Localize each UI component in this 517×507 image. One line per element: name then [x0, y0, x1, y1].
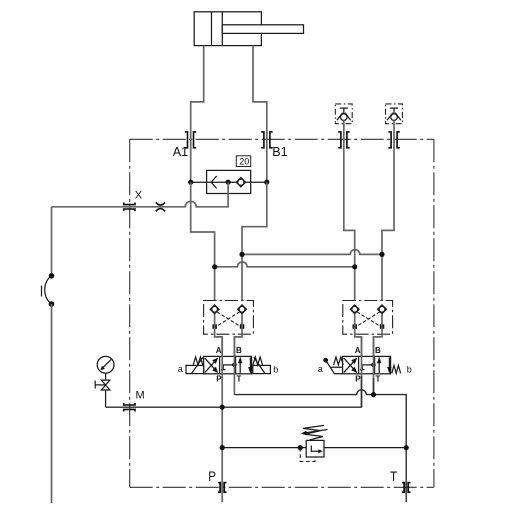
cylinder C1 rod [222, 25, 303, 34]
valve V2 right square arrows [377, 357, 392, 374]
svg-text:A: A [216, 346, 222, 355]
wire M gauge line [106, 406, 362, 408]
wire B/T vertical through valve V1 [233, 337, 235, 395]
POCV2 right check [378, 305, 387, 314]
directional valve V2 body [343, 356, 391, 373]
valve V2 spring left [334, 357, 344, 365]
wire POCV2 left output jog to valve V2 port A [355, 314, 362, 357]
wire V2 P drop (dark) [361, 376, 363, 407]
wire cylinder right leg to B1 [253, 46, 267, 183]
valve V2 centre square symbol [360, 365, 374, 370]
relief valve RV internal arrow [311, 446, 322, 454]
POCV1 right check [238, 305, 247, 314]
svg-text:B1: B1 [272, 145, 287, 159]
wire A1-B1 through valve FV [191, 181, 267, 183]
port A1 brackets [185, 132, 196, 148]
directional valve V1 body [204, 356, 252, 373]
svg-text:20: 20 [239, 157, 249, 167]
svg-text:T: T [376, 375, 381, 384]
valve V1 solenoid b (box with slash) [253, 365, 271, 373]
port M brackets [124, 403, 135, 412]
valve V2 solenoid a (box, slash, dot) [331, 367, 343, 374]
wire POCV2 right output jog to valve V2 port B [374, 314, 383, 357]
svg-text:P: P [216, 375, 222, 384]
node A-branch right [352, 264, 357, 269]
svg-text:A: A [355, 346, 361, 355]
wire CV2 down to POCV right block [382, 120, 394, 300]
svg-text:a: a [178, 364, 183, 374]
pressure gauge G [97, 356, 114, 373]
node relief line at P [220, 445, 225, 450]
wire branch B1 to right POCV (with jump over CV1 line) [242, 250, 382, 255]
wire B1 jog down to POCV1 [242, 182, 267, 300]
svg-text:b: b [407, 364, 412, 374]
wire hose to bottom edge [51, 304, 53, 503]
port X brackets [124, 203, 135, 212]
svg-text:b: b [273, 364, 278, 374]
orifice on X line [156, 202, 165, 211]
POCV2 left check [350, 305, 359, 314]
valve V1 centre square symbol [221, 365, 235, 370]
relief valve RV pilot dashed line [300, 448, 315, 462]
wire X pilot line with jump over A1 line [52, 182, 229, 207]
POCV1 left check [210, 305, 219, 314]
POCV1 pilot dashed cross lines [217, 312, 240, 326]
svg-text:a: a [318, 364, 323, 374]
node at valve FV left (A1) [188, 180, 193, 185]
node M-P junction [220, 405, 225, 410]
valve FV diamond orifice with ball [236, 178, 245, 187]
node at valve FV middle [226, 180, 231, 185]
POCV1 dual pilot check block (dash-dot box) [204, 301, 254, 335]
svg-text:M: M [136, 389, 145, 401]
check valve CV2 symbol [387, 108, 401, 120]
relief valve RV spring [303, 425, 324, 440]
wire T line from V1 to tank port (jump over V2 P line) [234, 390, 406, 502]
node relief pilot [298, 445, 303, 450]
port brackets CV2 [388, 132, 399, 148]
valve FV label box 20 [236, 156, 250, 167]
svg-text:B: B [375, 346, 381, 355]
node B-branch left [239, 252, 244, 257]
node at valve FV right (B1) [264, 180, 269, 185]
wire A1 jog down to POCV1 [191, 182, 215, 300]
port P brackets [218, 483, 226, 493]
throttle/check valve FV (label 20) body [207, 170, 251, 193]
wire POCV1 right output jog to valve V1 port B [234, 314, 242, 357]
valve V2 left square crossed arrows [344, 358, 357, 373]
wire relief line P to T [222, 447, 406, 449]
enclosure border (manifold block, dash-dot) [130, 139, 434, 487]
port B1 brackets [261, 132, 272, 148]
valve V1 spring left [193, 357, 203, 365]
wire V2 T drop (dark) [373, 378, 375, 395]
node B-branch right [379, 252, 384, 257]
POCV1 pilot squares [212, 324, 217, 329]
wire branch A1 to right POCV (with jump over B line) [215, 262, 355, 267]
check valve CV2 enclosure (dash-dot box) [386, 104, 403, 124]
wire hose branch down-left [51, 207, 53, 276]
node T junction V2 [371, 392, 376, 397]
relief valve RV body [306, 440, 324, 457]
wire B/T vertical through valve V2 [373, 337, 375, 395]
shut-off valve for gauge [95, 373, 110, 407]
valve V1 spring right [253, 357, 263, 365]
svg-text:T: T [390, 468, 398, 484]
valve V1 solenoid a (box with slash) [186, 365, 204, 373]
node A-branch left [212, 264, 217, 269]
svg-text:B: B [236, 346, 242, 355]
svg-text:T: T [237, 375, 242, 384]
check valve CV1 enclosure (dash-dot box) [335, 104, 352, 124]
wire A/P vertical through valve V2 [361, 337, 363, 407]
POCV2 dual pilot check block (dash-dot box) [343, 301, 393, 335]
node relief line at T [404, 445, 409, 450]
check valve CV1 symbol [337, 108, 351, 120]
svg-text:X: X [135, 190, 143, 202]
valve V1 left square crossed arrows [205, 358, 218, 373]
wire CV1 down to POCV right block [344, 120, 355, 300]
relief valve RV adjustment arrow [305, 430, 328, 433]
port brackets CV1 [338, 132, 349, 148]
svg-text:A1: A1 [173, 145, 188, 159]
valve V2 spring right [392, 365, 401, 373]
hose (flexible line) [45, 276, 52, 304]
POCV2 pilot squares [353, 324, 358, 329]
wire P line V1 (A/P vertical through valve down to bottom port P) [221, 337, 223, 502]
port T brackets [402, 483, 410, 493]
valve FV chevron [211, 176, 216, 188]
svg-text:P: P [355, 375, 361, 384]
cylinder C1 body [194, 12, 261, 46]
svg-text:P: P [208, 468, 216, 484]
wire cylinder left leg to A1 [191, 46, 204, 183]
valve V1 right square arrows [238, 357, 253, 374]
POCV2 pilot dashed cross lines [357, 312, 380, 326]
wire POCV1 left output jog to valve V1 port A [215, 314, 223, 357]
